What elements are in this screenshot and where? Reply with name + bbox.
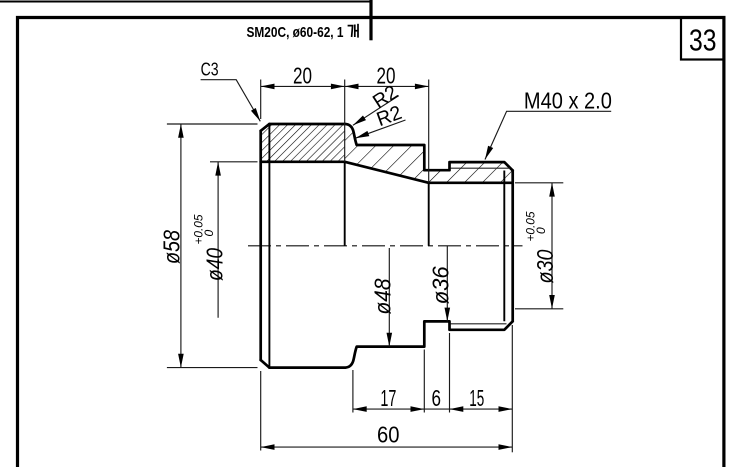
svg-text:C3: C3 (201, 59, 219, 79)
thread root line bottom (451, 323, 507, 325)
ext 6/15 (449, 333, 451, 413)
ext phi30 top (515, 182, 563, 184)
svg-text:0: 0 (534, 227, 548, 234)
ext line left face top (260, 80, 262, 120)
dim 6 line (424, 408, 449, 410)
dim text phi48 (369, 278, 395, 314)
svg-text:ø48: ø48 (369, 278, 395, 314)
svg-text:20: 20 (293, 63, 312, 89)
svg-text:ø36: ø36 (428, 266, 454, 304)
dim 17 (353, 408, 424, 410)
bore wall phi40 (261, 160, 345, 163)
dim phi40 (217, 162, 219, 318)
ext 60 left (260, 371, 262, 451)
svg-text:6: 6 (432, 385, 442, 411)
dim phi48 (388, 248, 390, 347)
svg-text:ø58: ø58 (159, 230, 185, 264)
chamfer C3 bottom (261, 360, 270, 368)
dim phi58 (180, 124, 182, 368)
leader C3 (201, 80, 261, 122)
left face (259, 131, 262, 360)
bore wall phi30 (429, 181, 513, 184)
svg-text:+0.05: +0.05 (192, 214, 206, 244)
label R2 lower (374, 102, 405, 131)
svg-text:M40 x 2.0: M40 x 2.0 (524, 88, 612, 114)
ext 17 left (352, 370, 354, 413)
dim text phi30 with tolerance (524, 211, 559, 283)
dim 20 second (345, 85, 429, 87)
hangul gae glyph (348, 24, 358, 38)
dim phi30 (551, 183, 553, 309)
thread root line top (451, 167, 511, 169)
dim text phi40 with tolerance (192, 214, 228, 281)
svg-text:ø30: ø30 (532, 249, 558, 283)
dim 20 first (261, 85, 345, 87)
hatch flange region (261, 124, 345, 162)
svg-text:+0.05: +0.05 (524, 211, 538, 241)
chamfer edge line left (268, 124, 270, 368)
svg-text:ø40: ø40 (202, 248, 228, 281)
centerline (248, 245, 523, 247)
dim text phi36 (428, 266, 454, 304)
bottom outline flange to thread (269, 321, 512, 367)
bore taper (345, 162, 429, 183)
title divider (369, 0, 372, 40)
right end face (511, 171, 514, 322)
hatch wall region (345, 124, 513, 183)
leader R2 lower (355, 120, 405, 138)
leader M40 (485, 111, 611, 159)
label R2 upper (369, 81, 402, 113)
ext phi30 bottom (515, 308, 563, 310)
chamfer C3 top (261, 124, 270, 131)
svg-text:17: 17 (380, 385, 396, 411)
svg-text:0: 0 (202, 230, 216, 237)
top outline flange to thread (269, 124, 512, 171)
thin dimension work (167, 80, 563, 453)
ext phi58 top (167, 123, 258, 125)
svg-text:33: 33 (689, 23, 717, 58)
ext line taper end (428, 80, 430, 183)
page edge line (top residual border) (0, 1, 371, 3)
svg-text:15: 15 (469, 385, 484, 411)
dim phi36 (446, 246, 448, 322)
leader R2 upper (353, 96, 399, 126)
ext line flange end (344, 80, 346, 162)
svg-text:60: 60 (377, 422, 400, 448)
chamfer edge line right (503, 171, 505, 322)
ext 17/6 (423, 350, 425, 413)
bore junction phi40/taper (344, 162, 346, 246)
ext right end (511, 325, 513, 452)
svg-text:SM20C, ø60-62, 1: SM20C, ø60-62, 1 (247, 24, 344, 41)
ext phi58 bottom (167, 367, 258, 369)
ext phi40 (210, 161, 258, 163)
sheet number box (681, 18, 724, 60)
dim 15 (450, 408, 513, 410)
bore junction taper/phi30 (428, 183, 430, 246)
dim text phi58 (159, 230, 185, 264)
dim 60 (261, 446, 513, 448)
